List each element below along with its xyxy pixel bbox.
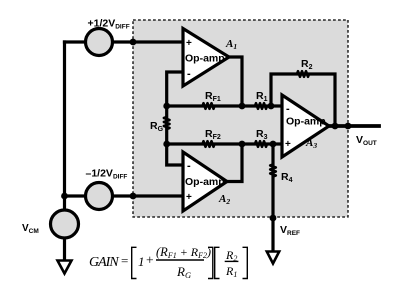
svg-text:+1/2VDIFF: +1/2VDIFF xyxy=(88,18,130,31)
svg-text:RG: RG xyxy=(176,264,191,280)
svg-text:VREF: VREF xyxy=(280,224,300,237)
svg-text:-: - xyxy=(187,160,191,172)
svg-text:+: + xyxy=(186,192,192,203)
svg-text:GAIN: GAIN xyxy=(89,255,119,270)
svg-text:1: 1 xyxy=(138,254,145,269)
svg-text:+: + xyxy=(146,253,154,268)
svg-text:R1: R1 xyxy=(225,264,237,279)
svg-text:Op-amp: Op-amp xyxy=(286,116,326,128)
svg-text:VCM: VCM xyxy=(22,223,39,235)
svg-text:=: = xyxy=(121,253,128,268)
svg-text:-: - xyxy=(286,103,290,115)
svg-text:Op-amp: Op-amp xyxy=(185,176,225,188)
svg-text:–1/2VDIFF: –1/2VDIFF xyxy=(86,168,128,181)
svg-text:VOUT: VOUT xyxy=(356,134,377,147)
svg-text:+: + xyxy=(186,38,192,49)
svg-text:+: + xyxy=(285,139,291,150)
svg-text:(RF1 + RF2): (RF1 + RF2) xyxy=(156,245,211,260)
svg-text:-: - xyxy=(187,68,191,80)
svg-text:Op-amp: Op-amp xyxy=(185,53,225,65)
